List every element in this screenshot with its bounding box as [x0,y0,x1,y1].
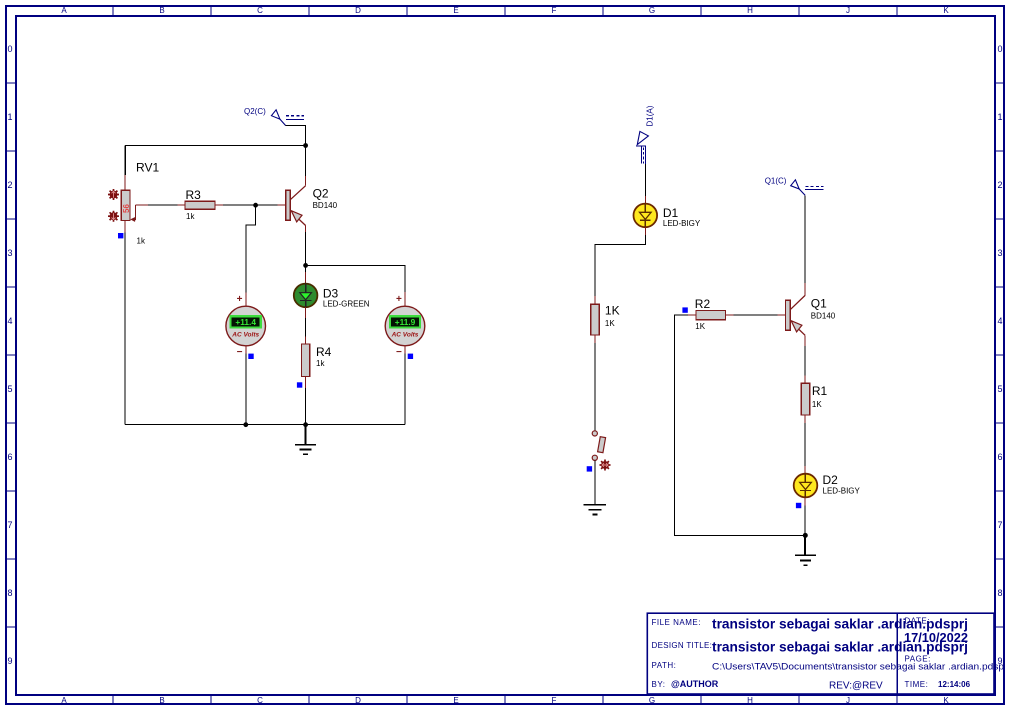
svg-text:LED-BIGY: LED-BIGY [823,487,861,496]
wire terminal to Q1 collector [804,195,806,295]
svg-text:D: D [355,696,361,705]
svg-text:1K: 1K [605,304,620,318]
R4 blue marker [297,382,302,387]
wire top rail [125,146,305,176]
switch SW [592,431,605,461]
svg-text:Q2(C): Q2(C) [244,107,266,116]
ground right circuit [795,535,816,565]
resistor R1 [801,383,809,423]
wire D3 to R4 [305,307,307,344]
svg-text:LED-GREEN: LED-GREEN [323,300,370,309]
voltmeter VM1 [226,294,266,358]
svg-text:7: 7 [997,520,1002,530]
svg-text:A: A [61,696,67,705]
wire Q2 emitter down [305,226,307,266]
svg-text:K: K [943,6,949,15]
svg-text:1: 1 [997,112,1002,122]
svg-text:+11.9: +11.9 [395,318,416,327]
voltmeter VM2 [385,294,425,358]
svg-text:RV1: RV1 [136,161,159,175]
svg-text:B: B [159,6,164,15]
svg-text:A: A [61,6,67,15]
svg-text:7: 7 [7,520,12,530]
svg-text:D3: D3 [323,286,339,300]
svg-text:8: 8 [7,588,12,598]
svg-text:TIME:: TIME: [905,680,929,689]
svg-text:F: F [552,696,557,705]
svg-text:BD140: BD140 [313,201,338,210]
wire VM1 to rail [245,346,247,425]
svg-text:FILE NAME:: FILE NAME: [652,618,701,627]
transistor Q2 [286,186,306,226]
svg-text:R1: R1 [812,384,828,398]
svg-text:1K: 1K [695,322,705,331]
wire R2 to Q1 base [733,314,785,316]
wire switch to ground [594,460,596,504]
junction node ground right [803,533,808,538]
svg-text:D2: D2 [823,473,839,487]
switch actuator [600,460,611,471]
svg-text:−: − [237,347,243,358]
svg-text:R4: R4 [316,345,332,359]
ground switch [584,505,606,515]
svg-text:1k: 1k [186,212,195,221]
svg-text:8: 8 [997,588,1002,598]
wire junction down to voltmeter left [246,205,256,306]
svg-text:R2: R2 [695,297,711,311]
svg-text:H: H [747,6,753,15]
wire R4 to rail [305,388,307,425]
wire Q1 emitter to R1 [804,335,806,383]
RV1 blue marker [118,233,123,238]
wire junction to D3 [305,265,307,283]
svg-text:REV:@REV: REV:@REV [829,681,883,692]
svg-text:G: G [649,6,655,15]
wire D2 to ground [804,497,806,535]
wire wiper to R3 [135,204,185,206]
svg-text:3: 3 [997,248,1002,258]
wire bottom rail [125,424,405,426]
junction node rail mid [303,422,308,427]
svg-text:J: J [846,6,850,15]
svg-text:C: C [257,696,263,705]
R2 blue marker [682,307,687,312]
svg-text:1k: 1k [137,237,146,246]
terminal D1(A) [636,105,655,164]
junction node top [303,143,308,148]
svg-text:K: K [943,696,949,705]
svg-text:AC Volts: AC Volts [391,332,419,339]
svg-text:9: 9 [7,656,12,666]
LED D3 [294,284,318,308]
svg-text:F: F [552,6,557,15]
svg-text:0: 0 [997,44,1002,54]
LED D2 [794,474,818,498]
wire R3 to junction [223,204,256,206]
svg-text:BD140: BD140 [811,312,836,321]
LED D1 [634,204,658,228]
terminal Q2(C) [244,107,304,126]
RV1 actuator up [108,189,119,200]
svg-text:6: 6 [997,452,1002,462]
svg-text:C: C [257,6,263,15]
svg-text:2: 2 [997,180,1002,190]
wire junction to Q2 base [256,204,286,206]
svg-text:5: 5 [7,384,12,394]
svg-text:@AUTHOR: @AUTHOR [671,679,719,689]
svg-text:E: E [453,696,458,705]
RV1 actuator down [108,211,119,222]
svg-text:−: − [396,347,402,358]
svg-text:2: 2 [7,180,12,190]
svg-text:5: 5 [997,384,1002,394]
wire collector Q2 [305,146,307,177]
svg-text:1K: 1K [605,319,615,328]
svg-text:R3: R3 [186,188,202,202]
svg-text:DESIGN TITLE:: DESIGN TITLE: [652,641,713,650]
svg-text:1k: 1k [316,359,325,368]
wire D1 to 1K resistor [595,227,646,304]
svg-text:3: 3 [7,248,12,258]
svg-text:+: + [396,294,402,305]
svg-text:E: E [453,6,458,15]
ground left circuit [295,425,316,455]
resistor R2 [688,311,733,320]
svg-text:D: D [355,6,361,15]
wire 1K to switch [594,343,596,431]
wire terminal to D1 [644,164,646,204]
svg-text:12:14:06: 12:14:06 [938,680,971,689]
svg-text:1K: 1K [812,400,822,409]
wire R2 left down to ground rail [674,315,805,535]
svg-text:transistor sebagai saklar .ard: transistor sebagai saklar .ardian.pdsprj [712,640,968,655]
svg-text:J: J [846,696,850,705]
svg-text:0: 0 [7,44,12,54]
resistor 1K [591,304,599,343]
VM2 blue marker [408,354,413,359]
transistor Q1 [786,295,806,335]
potentiometer RV1 [121,175,136,233]
svg-text:+11.4: +11.4 [235,318,256,327]
svg-text:Q1: Q1 [811,297,827,311]
svg-text:Q1(C): Q1(C) [765,177,787,186]
junction node rail left [243,422,248,427]
svg-text:PATH:: PATH: [652,661,677,670]
terminal Q1(C) [765,177,824,196]
resistor R3 [185,201,223,209]
svg-text:B: B [159,696,164,705]
junction node base [253,203,258,208]
svg-text:H: H [747,696,753,705]
TITLE BLOCK [647,613,994,694]
wire from terminal Q2(C) [286,126,306,146]
resistor R4 [302,344,310,388]
switch blue marker [587,466,592,471]
wire to voltmeter right [306,265,405,306]
svg-text:+: + [237,294,243,305]
VM1 blue marker [248,354,253,359]
svg-text:6: 6 [7,452,12,462]
svg-text:LED-BIGY: LED-BIGY [663,219,701,228]
svg-text:4: 4 [997,316,1002,326]
svg-text:D1(A): D1(A) [646,105,655,126]
svg-text:1: 1 [7,112,12,122]
wire R1 to D2 [804,423,806,474]
svg-text:Q2: Q2 [313,187,329,201]
junction node emitter [303,263,308,268]
svg-text:4: 4 [7,316,12,326]
svg-text:AC Volts: AC Volts [231,332,259,339]
D2 blue marker [796,503,801,508]
svg-text:BY:: BY: [652,680,666,689]
svg-text:C:\Users\TAV5\Documents\transi: C:\Users\TAV5\Documents\transistor sebag… [712,662,1004,673]
wire RV1 to rail [124,233,126,425]
svg-text:56: 56 [122,204,131,213]
wire VM2 to rail [404,346,406,425]
svg-text:G: G [649,696,655,705]
